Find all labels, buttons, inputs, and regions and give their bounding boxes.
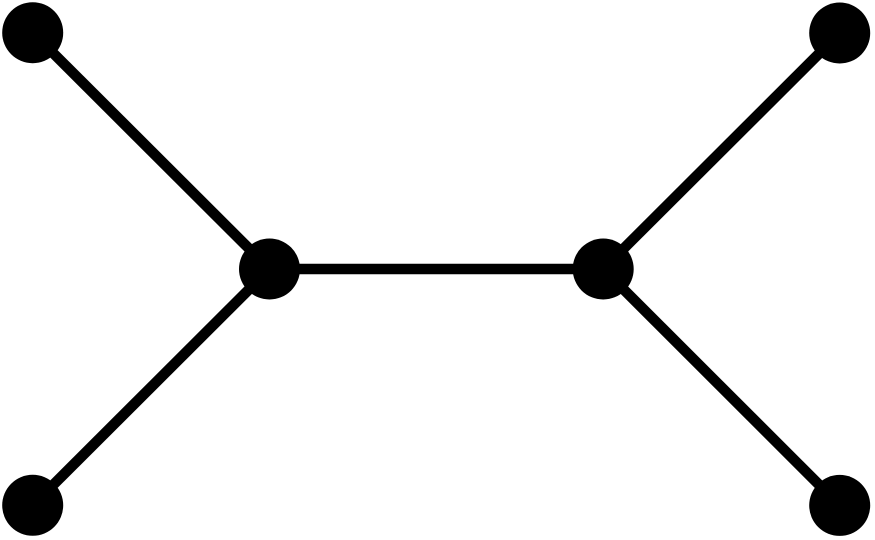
node C bbox=[239, 239, 300, 300]
wire edge C-D bbox=[270, 264, 604, 275]
node B bbox=[809, 3, 870, 64]
wire edge F-D bbox=[603, 269, 840, 505]
node A bbox=[2, 2, 63, 63]
node E bbox=[2, 475, 63, 536]
node D bbox=[573, 239, 634, 300]
node F bbox=[809, 475, 870, 536]
wire edge A-C bbox=[33, 33, 270, 269]
wire edge B-D bbox=[603, 33, 840, 269]
wire edge E-C bbox=[33, 269, 270, 505]
